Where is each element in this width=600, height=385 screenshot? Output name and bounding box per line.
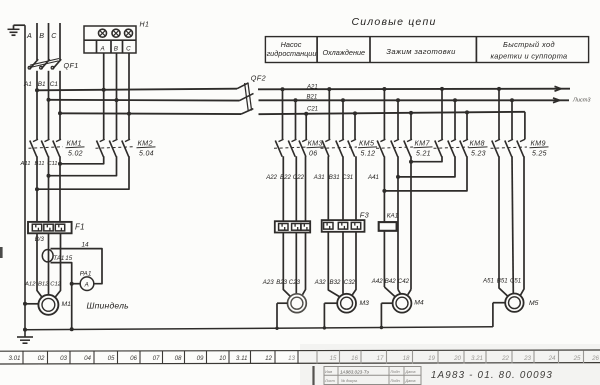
node C51 <box>510 278 521 285</box>
svg-text:A: A <box>26 31 32 40</box>
node B31 <box>329 174 340 181</box>
svg-text:06: 06 <box>130 355 137 362</box>
svg-text:КМ8: КМ8 <box>470 138 485 147</box>
svg-text:С51: С51 <box>510 278 521 285</box>
node A22 <box>265 174 277 181</box>
svg-text:09: 09 <box>197 355 204 362</box>
svg-text:А: А <box>100 46 105 53</box>
svg-text:05: 05 <box>108 355 115 362</box>
svg-text:В32: В32 <box>330 279 341 286</box>
drawing number <box>431 370 553 381</box>
svg-text:23: 23 <box>523 355 531 362</box>
svg-text:Н1: Н1 <box>140 21 150 28</box>
svg-text:Лист: Лист <box>324 379 335 383</box>
wire H1 phase C <box>128 53 130 139</box>
svg-text:1А983 - 01. 80. 00093: 1А983 - 01. 80. 00093 <box>431 370 553 381</box>
node A32 <box>314 279 326 286</box>
sheet reference Лист3 <box>572 98 591 104</box>
node C21 <box>307 107 318 113</box>
svg-text:13: 13 <box>288 355 295 362</box>
motor M5 <box>493 294 539 327</box>
svg-text:19: 19 <box>428 355 435 362</box>
svg-text:КМ1: КМ1 <box>67 138 82 147</box>
svg-text:24: 24 <box>548 355 556 362</box>
svg-text:12: 12 <box>265 355 272 362</box>
wire phase A input <box>26 23 37 60</box>
node C32 <box>344 279 356 286</box>
wires F2 to motor M2 <box>283 233 305 297</box>
svg-text:А12: А12 <box>24 281 36 287</box>
svg-text:02: 02 <box>38 355 45 362</box>
wires KM9 to motor M5 <box>499 156 524 296</box>
svg-text:B1: B1 <box>38 81 46 88</box>
svg-text:3.01: 3.01 <box>8 355 20 362</box>
svg-text:С22: С22 <box>293 174 305 181</box>
circuit breaker QF1 <box>28 59 79 70</box>
svg-text:М5: М5 <box>529 300 539 307</box>
svg-text:ТА1: ТА1 <box>53 255 64 262</box>
node B12 <box>38 281 49 287</box>
contactor KM1 main contacts <box>29 138 85 157</box>
svg-text:КА1: КА1 <box>387 213 398 220</box>
label B/3 <box>35 237 45 243</box>
node A23 <box>262 279 274 286</box>
ammeter PA1 <box>72 271 94 291</box>
wire bus phase A (A21) <box>35 86 570 92</box>
svg-text:В23: В23 <box>276 279 287 286</box>
wire 15 <box>51 263 74 332</box>
wire KM1 outputs <box>37 156 60 222</box>
node B51 <box>497 278 508 285</box>
svg-text:08: 08 <box>175 355 182 362</box>
svg-text:КМ9: КМ9 <box>531 138 546 147</box>
svg-text:06: 06 <box>309 151 317 158</box>
svg-text:А32: А32 <box>314 279 326 286</box>
svg-text:КМ3: КМ3 <box>308 138 323 147</box>
pin 14 <box>82 242 90 249</box>
svg-text:C1: C1 <box>50 81 59 88</box>
header Насос гидростанции <box>267 40 317 58</box>
node B1 <box>38 81 46 88</box>
wire phase C input <box>51 23 60 60</box>
svg-text:20: 20 <box>453 355 461 362</box>
svg-text:B: B <box>39 31 44 40</box>
svg-text:Подп: Подп <box>391 370 401 374</box>
wire-number strip (15–26) <box>317 351 600 364</box>
node C31 <box>342 174 353 181</box>
wire phase B input <box>39 23 48 60</box>
contactor KM2 main contacts <box>96 138 156 157</box>
thermal overload relay F3 <box>322 210 370 231</box>
svg-text:Зажим заготовки: Зажим заготовки <box>386 47 456 56</box>
svg-text:5.23: 5.23 <box>471 151 486 158</box>
node B21 <box>307 94 318 100</box>
motor M1 <box>25 295 71 315</box>
svg-text:5.12: 5.12 <box>361 151 376 158</box>
wire KM9 inputs <box>499 89 512 139</box>
svg-text:В: В <box>114 46 118 53</box>
svg-text:04: 04 <box>84 355 91 362</box>
svg-text:М1: М1 <box>62 301 72 308</box>
svg-text:№ докум.: № докум. <box>341 379 358 383</box>
wire B1 vertical <box>48 71 50 140</box>
motor M4 <box>380 294 424 329</box>
svg-text:25: 25 <box>573 355 581 362</box>
svg-text:Дата: Дата <box>405 379 416 383</box>
svg-text:А: А <box>84 281 89 288</box>
node A1 <box>23 81 32 88</box>
node C11 <box>47 161 57 167</box>
node A21 <box>306 84 318 90</box>
svg-text:А22: А22 <box>265 174 277 181</box>
svg-text:5.21: 5.21 <box>416 151 431 158</box>
motor M2 <box>275 294 306 330</box>
wire bus phase C (C21) <box>58 110 525 139</box>
contactor KM7 main contacts <box>376 138 433 157</box>
svg-text:КМ7: КМ7 <box>415 138 431 147</box>
wire KM8 output crossover <box>384 156 467 191</box>
svg-text:Охлаждение: Охлаждение <box>323 48 366 57</box>
wires KM3 to F2 <box>283 156 305 221</box>
svg-text:В42: В42 <box>385 278 396 285</box>
function header table <box>265 37 588 63</box>
svg-text:В22: В22 <box>280 174 291 181</box>
wire-number strip (3.01–13) <box>0 350 600 364</box>
node A12 <box>24 281 36 287</box>
svg-text:5.25: 5.25 <box>532 151 547 158</box>
svg-text:А31: А31 <box>313 174 325 181</box>
node B11 <box>35 161 45 167</box>
svg-text:каретки и суппорта: каретки и суппорта <box>491 51 568 60</box>
svg-text:С: С <box>126 46 131 53</box>
svg-text:22: 22 <box>501 355 509 362</box>
svg-text:10: 10 <box>219 355 226 362</box>
node B42 <box>385 278 396 285</box>
node A51 <box>482 278 494 285</box>
thermal overload relay F2 <box>275 221 310 232</box>
wire KM2 output crossover <box>35 156 129 191</box>
current transformer TA1 <box>42 250 64 263</box>
svg-text:3.21: 3.21 <box>471 355 483 362</box>
svg-text:М3: М3 <box>360 300 370 307</box>
svg-text:Лист3: Лист3 <box>572 98 591 104</box>
wire 14 <box>51 249 103 284</box>
svg-text:А23: А23 <box>262 279 274 286</box>
svg-text:A1: A1 <box>23 81 32 88</box>
contactor KM9 main contacts <box>491 138 549 157</box>
svg-text:1А983.023-Тэ: 1А983.023-Тэ <box>340 369 370 374</box>
wire H1 phase B <box>116 53 118 139</box>
svg-text:С42: С42 <box>398 278 410 285</box>
svg-text:5.04: 5.04 <box>139 151 154 158</box>
wire PE (left vertical) <box>23 25 27 337</box>
header Быстрый ход каретки и суппорта <box>491 40 568 60</box>
svg-text:15: 15 <box>330 355 337 362</box>
wire bus phase B (B21) <box>47 98 570 103</box>
wires F3 to motor M3 <box>328 232 356 297</box>
svg-text:С21: С21 <box>307 107 318 113</box>
ground (top left) <box>8 25 26 35</box>
title Силовые цепи <box>351 16 436 28</box>
node B32 <box>330 279 341 286</box>
svg-text:М4: М4 <box>414 300 424 307</box>
wires KM7 outputs <box>382 156 413 289</box>
svg-text:А21: А21 <box>306 84 318 90</box>
wire PE bus <box>25 327 493 330</box>
svg-text:Изм: Изм <box>325 370 332 374</box>
node A42 <box>371 278 383 285</box>
wire KM5 inputs <box>329 89 355 139</box>
svg-text:5.02: 5.02 <box>68 151 83 158</box>
motor M3 <box>323 294 369 330</box>
svg-text:А42: А42 <box>371 278 383 285</box>
svg-text:Быстрый ход: Быстрый ход <box>503 40 555 49</box>
wire A1 vertical <box>36 71 38 140</box>
pin 15 <box>65 255 72 262</box>
svg-text:А11: А11 <box>20 161 31 167</box>
wire H1 phase A <box>103 53 105 139</box>
wire KM8 inputs <box>442 89 467 139</box>
svg-text:3.11: 3.11 <box>236 355 248 362</box>
svg-text:КМ2: КМ2 <box>138 138 153 147</box>
svg-text:Силовые цепи: Силовые цепи <box>351 16 436 28</box>
svg-text:QF1: QF1 <box>64 61 79 70</box>
svg-text:С32: С32 <box>344 279 356 286</box>
svg-text:03: 03 <box>60 355 67 362</box>
node B22 <box>280 174 291 181</box>
svg-text:С23: С23 <box>289 279 301 286</box>
current relay KA1 <box>379 213 399 287</box>
wires F1 to motor M1 <box>37 233 61 297</box>
svg-text:В11: В11 <box>35 161 45 167</box>
svg-text:РА1: РА1 <box>80 271 92 278</box>
wire KM7 inputs <box>384 89 411 139</box>
svg-text:КМ5: КМ5 <box>359 138 375 147</box>
contactor KM8 main contacts <box>434 138 488 157</box>
svg-text:Подп.: Подп. <box>391 379 401 383</box>
title block revision table <box>314 366 422 385</box>
svg-text:17: 17 <box>377 355 384 362</box>
svg-text:А41: А41 <box>367 174 379 181</box>
svg-text:А51: А51 <box>482 278 494 285</box>
node C23 <box>289 279 301 286</box>
wires KM5 to F3 <box>328 156 356 220</box>
svg-text:14: 14 <box>82 242 90 249</box>
svg-text:В21: В21 <box>307 94 318 100</box>
svg-text:Дата: Дата <box>405 370 416 374</box>
node A31 <box>313 174 325 181</box>
header Охлаждение <box>323 48 366 57</box>
contactor KM5 main contacts <box>321 138 378 157</box>
node A11 <box>20 161 31 167</box>
svg-text:18: 18 <box>403 355 410 362</box>
svg-text:16: 16 <box>351 355 358 362</box>
svg-text:гидростанции: гидростанции <box>267 49 317 58</box>
svg-text:В31: В31 <box>329 174 340 181</box>
wire C1 vertical <box>59 71 61 140</box>
ground (bottom left) <box>17 337 33 343</box>
label Шпиндель <box>87 300 130 310</box>
header Зажим заготовки <box>386 47 456 56</box>
svg-text:QF2: QF2 <box>251 74 266 83</box>
svg-text:F1: F1 <box>75 223 85 232</box>
node C12 <box>50 281 62 287</box>
svg-text:07: 07 <box>153 355 160 362</box>
svg-text:C: C <box>51 31 57 40</box>
svg-text:Насос: Насос <box>281 40 302 49</box>
wires to motor M4 <box>384 287 411 297</box>
svg-text:С12: С12 <box>50 281 62 287</box>
terminal block H1 <box>84 21 149 53</box>
svg-text:Шпиндель: Шпиндель <box>87 300 130 310</box>
circuit breaker QF2 <box>237 74 266 115</box>
svg-text:В12: В12 <box>38 281 49 287</box>
thermal overload relay F1 <box>28 222 85 233</box>
node B23 <box>276 279 287 286</box>
node C1 <box>50 81 59 88</box>
node C42 <box>398 278 410 285</box>
svg-text:26: 26 <box>591 355 599 362</box>
wire KM3 inputs <box>283 89 307 139</box>
node C22 <box>293 174 305 181</box>
contactor KM3 main contacts <box>274 138 326 157</box>
svg-text:15: 15 <box>65 255 72 262</box>
svg-text:F3: F3 <box>360 210 370 219</box>
node A41 <box>367 174 379 181</box>
